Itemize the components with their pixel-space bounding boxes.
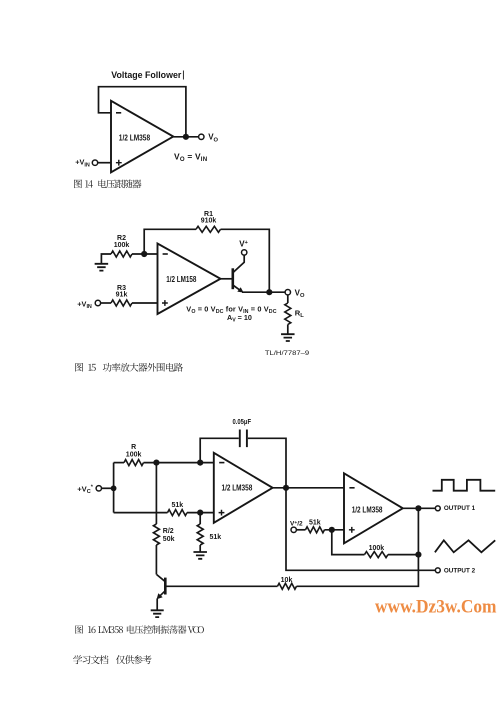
svg-text:OUTPUT 1: OUTPUT 1 [444,506,476,512]
svg-text:100k: 100k [114,242,130,249]
svg-text:AV = 10: AV = 10 [227,313,252,324]
svg-text:V+: V+ [239,240,248,249]
svg-text:91k: 91k [116,292,128,299]
svg-text:+VC*: +VC* [77,484,94,495]
svg-text:TL/H/7787–9: TL/H/7787–9 [265,350,310,357]
svg-text:100k: 100k [369,545,385,552]
svg-text:+VIN: +VIN [77,300,92,311]
svg-text:OUTPUT 2: OUTPUT 2 [444,568,476,574]
svg-text:R: R [131,444,136,451]
svg-text:0.05μF: 0.05μF [233,419,252,426]
svg-text:1/2 LM358: 1/2 LM358 [119,132,151,142]
svg-text:Voltage Follower: Voltage Follower [111,70,181,81]
svg-text:www.Dz3w.Com: www.Dz3w.Com [375,598,497,618]
svg-text:100k: 100k [126,451,142,458]
svg-text:+VIN: +VIN [75,158,90,169]
svg-text:R/2: R/2 [163,528,174,535]
svg-text:51k: 51k [171,502,183,509]
svg-text:910k: 910k [201,218,217,225]
svg-text:VO: VO [208,133,218,144]
svg-text:1/2 LM358: 1/2 LM358 [352,504,383,514]
svg-text:51k: 51k [210,534,222,541]
svg-text:VO: VO [295,288,305,299]
svg-text:V+/2: V+/2 [290,521,303,528]
svg-text:RL: RL [295,308,304,319]
svg-text:10k: 10k [281,577,293,584]
svg-text:1/2 LM358: 1/2 LM358 [222,482,253,492]
svg-text:1/2 LM158: 1/2 LM158 [166,274,196,284]
svg-text:VO = VIN: VO = VIN [174,151,207,163]
svg-text:50k: 50k [163,536,175,543]
svg-text:51k: 51k [309,520,321,527]
